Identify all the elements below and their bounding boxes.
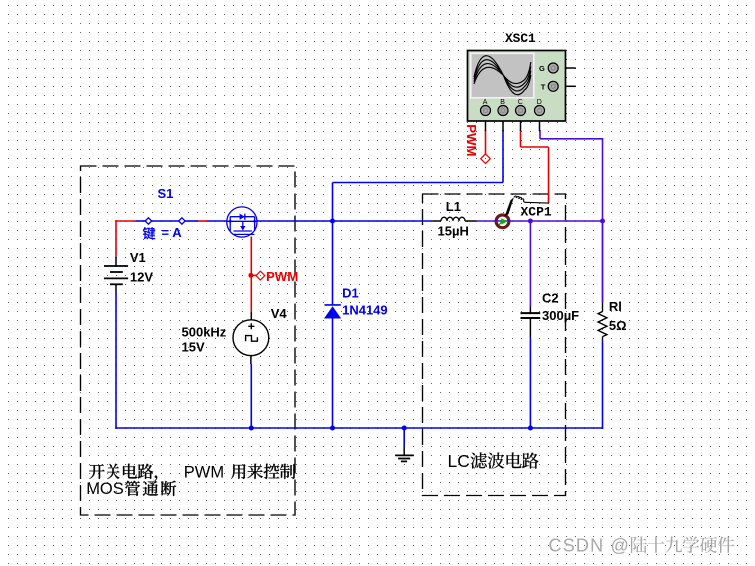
svg-text:PWM: PWM: [464, 124, 479, 156]
svg-text:12V: 12V: [130, 270, 153, 285]
svg-text:1N4149: 1N4149: [342, 303, 388, 318]
svg-text:S1: S1: [158, 186, 174, 201]
svg-text:D: D: [537, 99, 542, 106]
svg-text:V4: V4: [271, 306, 288, 321]
svg-text:15µH: 15µH: [438, 224, 469, 239]
svg-text:LC: LC: [448, 451, 470, 471]
svg-text:B: B: [500, 99, 505, 106]
svg-text:L1: L1: [446, 199, 461, 214]
svg-text:CSDN @: CSDN @: [549, 536, 630, 556]
svg-text:C: C: [518, 99, 523, 106]
svg-text:PWM: PWM: [266, 269, 298, 284]
svg-text:V1: V1: [130, 250, 146, 265]
svg-text:15V: 15V: [182, 340, 205, 355]
svg-text:XCP1: XCP1: [521, 205, 552, 220]
svg-text:300µF: 300µF: [542, 308, 579, 323]
svg-text:G: G: [539, 64, 545, 73]
svg-text:Rl: Rl: [609, 299, 622, 314]
svg-text:5Ω: 5Ω: [609, 318, 627, 333]
svg-text:C2: C2: [542, 290, 559, 305]
svg-text:A: A: [483, 99, 488, 106]
svg-text:= A: = A: [162, 225, 183, 240]
svg-text:T: T: [541, 82, 546, 91]
svg-text:XSC1: XSC1: [505, 31, 536, 46]
svg-text:PWM: PWM: [184, 464, 224, 482]
svg-text:D1: D1: [342, 286, 359, 301]
svg-text:500kHz: 500kHz: [182, 324, 227, 339]
svg-text:MOS: MOS: [86, 480, 124, 498]
